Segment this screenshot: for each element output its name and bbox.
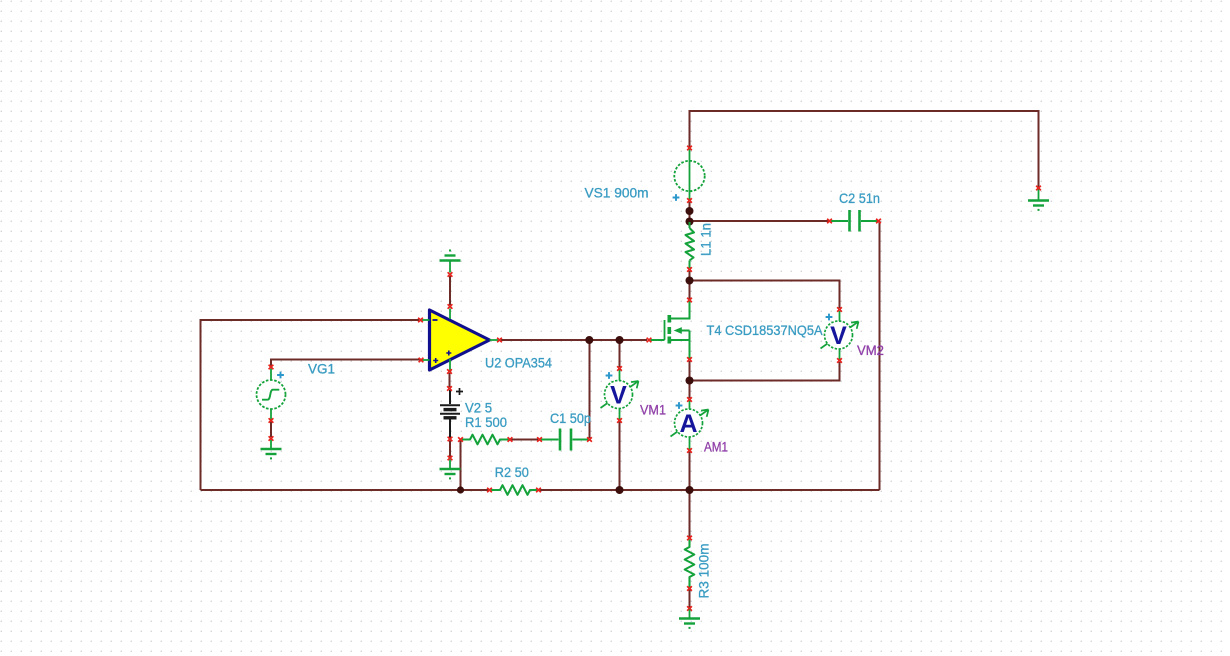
VG1 minus pin xyxy=(269,418,274,422)
battery V2 xyxy=(440,388,463,438)
svg-text:V: V xyxy=(830,322,847,350)
C2 left pin xyxy=(827,219,832,223)
wire node A to C2 left xyxy=(690,220,830,222)
VG1 plus mark xyxy=(277,372,284,379)
wire T4 source to node C xyxy=(689,361,691,381)
C1 left pin xyxy=(537,437,542,441)
svg-text:T4 CSD18537NQ5A: T4 CSD18537NQ5A xyxy=(707,323,823,338)
C2 right pin xyxy=(876,219,881,223)
transistor T4 MOSFET xyxy=(651,301,690,359)
V2 plus pin xyxy=(447,386,452,390)
VM2 minus pin xyxy=(837,358,842,362)
VS1 plus mark xyxy=(673,194,680,201)
resistor R3 xyxy=(685,540,695,588)
svg-text:R3 100m: R3 100m xyxy=(697,544,712,599)
wire L1 bottom to T4 drain xyxy=(689,271,691,299)
svg-text:V2 5: V2 5 xyxy=(465,401,492,416)
ground below R3 xyxy=(679,610,700,629)
ground top-right xyxy=(1028,189,1049,211)
voltmeter VM1 xyxy=(601,370,639,420)
svg-text:R1 500: R1 500 xyxy=(465,415,507,430)
wire C2 right down to bottom bus xyxy=(879,221,881,490)
svg-text:A: A xyxy=(679,410,697,438)
wire AM1 bottom to bottom bus xyxy=(689,451,691,490)
flipped ground above op-amp xyxy=(440,250,461,273)
VS1 top pin xyxy=(687,146,692,150)
L1 bottom pin xyxy=(687,267,692,271)
R3 top pin xyxy=(687,536,692,540)
wire bottom bus to R3 top xyxy=(689,490,691,537)
C1 right pin xyxy=(587,437,592,441)
node A dot (L1 top / C2) xyxy=(686,218,694,226)
VG1 plus pin xyxy=(269,365,274,369)
T4 gate pin xyxy=(647,338,652,342)
resistor R1 xyxy=(462,435,509,445)
svg-text:VM2: VM2 xyxy=(857,343,884,358)
wire op-amp V+ pin to flipped ground xyxy=(449,276,451,305)
AM1 minus pin xyxy=(687,448,692,452)
wire node B to VM2 top xyxy=(690,281,840,309)
voltage source VS1 xyxy=(674,149,704,200)
VG1 ground-end pin xyxy=(269,436,274,440)
AM1 plus pin xyxy=(687,397,692,401)
V2 minus pin xyxy=(448,437,453,441)
ammeter AM1 xyxy=(671,401,709,450)
VM1 plus pin xyxy=(617,366,622,370)
AM1 plus mark xyxy=(676,402,683,409)
node gate/C1 dot xyxy=(585,336,593,344)
svg-text:V: V xyxy=(610,382,627,410)
wire V2 bottom to its ground xyxy=(449,441,451,458)
svg-text:VM1: VM1 xyxy=(640,403,666,418)
VM1 minus pin xyxy=(617,418,622,422)
U2 output pin xyxy=(497,338,502,342)
svg-text:U2 OPA354: U2 OPA354 xyxy=(485,356,553,371)
wire VM1 top xyxy=(619,341,621,367)
ground below V2 xyxy=(440,460,461,480)
voltmeter VM2 xyxy=(821,311,859,360)
VM1 plus mark xyxy=(606,372,613,379)
node gate/VM1 dot xyxy=(616,336,624,344)
top-right ground pin xyxy=(1036,186,1041,190)
VM2 plus pin xyxy=(837,307,842,311)
inductor L1 xyxy=(686,222,695,268)
wire gate node down to C1 right xyxy=(589,340,591,438)
ground below VG1 xyxy=(261,440,282,459)
wire VM1 bottom to bottom bus xyxy=(619,421,621,490)
wire R1 right to C1 left xyxy=(511,439,538,441)
VS1 bottom pin xyxy=(687,198,692,202)
svg-text:VS1 900m: VS1 900m xyxy=(585,186,649,201)
VM2 plus mark xyxy=(826,314,833,321)
node B dot (L1 bottom / VM2 / drain) xyxy=(686,277,694,285)
generator VG1 xyxy=(257,369,286,420)
node bus/VM1 dot xyxy=(616,486,624,494)
wire VG1 to non-inverting input xyxy=(271,360,421,367)
wire node C to AM1 top xyxy=(689,381,691,399)
wire bottom bus right of R2 xyxy=(540,489,880,491)
R2 left pin xyxy=(487,488,492,492)
wire op-amp output to T4 gate xyxy=(501,339,647,341)
node VS1 out dot xyxy=(686,207,694,215)
node C dot (source / VM2- / AM1) xyxy=(686,377,694,385)
node bus/AM1/R3 dot xyxy=(686,486,694,494)
capacitor C1 xyxy=(541,429,588,451)
svg-text:C1 50p: C1 50p xyxy=(550,411,591,426)
U2 V- pin xyxy=(447,369,452,373)
T4 drain pin xyxy=(687,298,692,302)
capacitor C2 xyxy=(831,210,878,232)
wire bottom bus left of R2 xyxy=(201,489,489,491)
wire top bus from VS1 to top-right ground xyxy=(690,111,1039,188)
node bus/R1 dot xyxy=(457,486,464,493)
svg-text:C2 51n: C2 51n xyxy=(839,191,880,206)
U2 inverting input pin xyxy=(418,318,423,322)
U2 V+ pin xyxy=(448,304,453,308)
R2 right pin xyxy=(536,488,541,492)
R1 left pin xyxy=(458,437,463,441)
wire VS1 bottom to junction A xyxy=(689,202,691,222)
R3 ground pin xyxy=(687,606,692,610)
wire R3 bottom to its ground xyxy=(689,590,691,608)
op-amp U2 xyxy=(422,309,498,373)
V2 ground-end pin xyxy=(448,456,453,460)
wire R1 left down to bottom bus xyxy=(460,440,462,490)
resistor R2 xyxy=(491,485,538,495)
wire inverting input row xyxy=(201,320,420,490)
svg-text:R2 50: R2 50 xyxy=(495,465,529,480)
R3 bottom pin xyxy=(687,586,692,590)
svg-text:VG1: VG1 xyxy=(308,362,335,377)
U2 non-inverting input pin xyxy=(419,358,424,362)
svg-text:AM1: AM1 xyxy=(704,440,728,455)
wire VG1 bottom to its ground xyxy=(270,421,272,437)
svg-text:L1 1n: L1 1n xyxy=(699,223,714,256)
wire VM2 bottom to node C xyxy=(690,362,840,381)
T4 source pin xyxy=(687,357,692,361)
wire op-amp V- pin to battery V2 xyxy=(449,373,451,387)
U2 V+ ground-end pin xyxy=(448,272,453,276)
R1 right pin xyxy=(508,437,513,441)
